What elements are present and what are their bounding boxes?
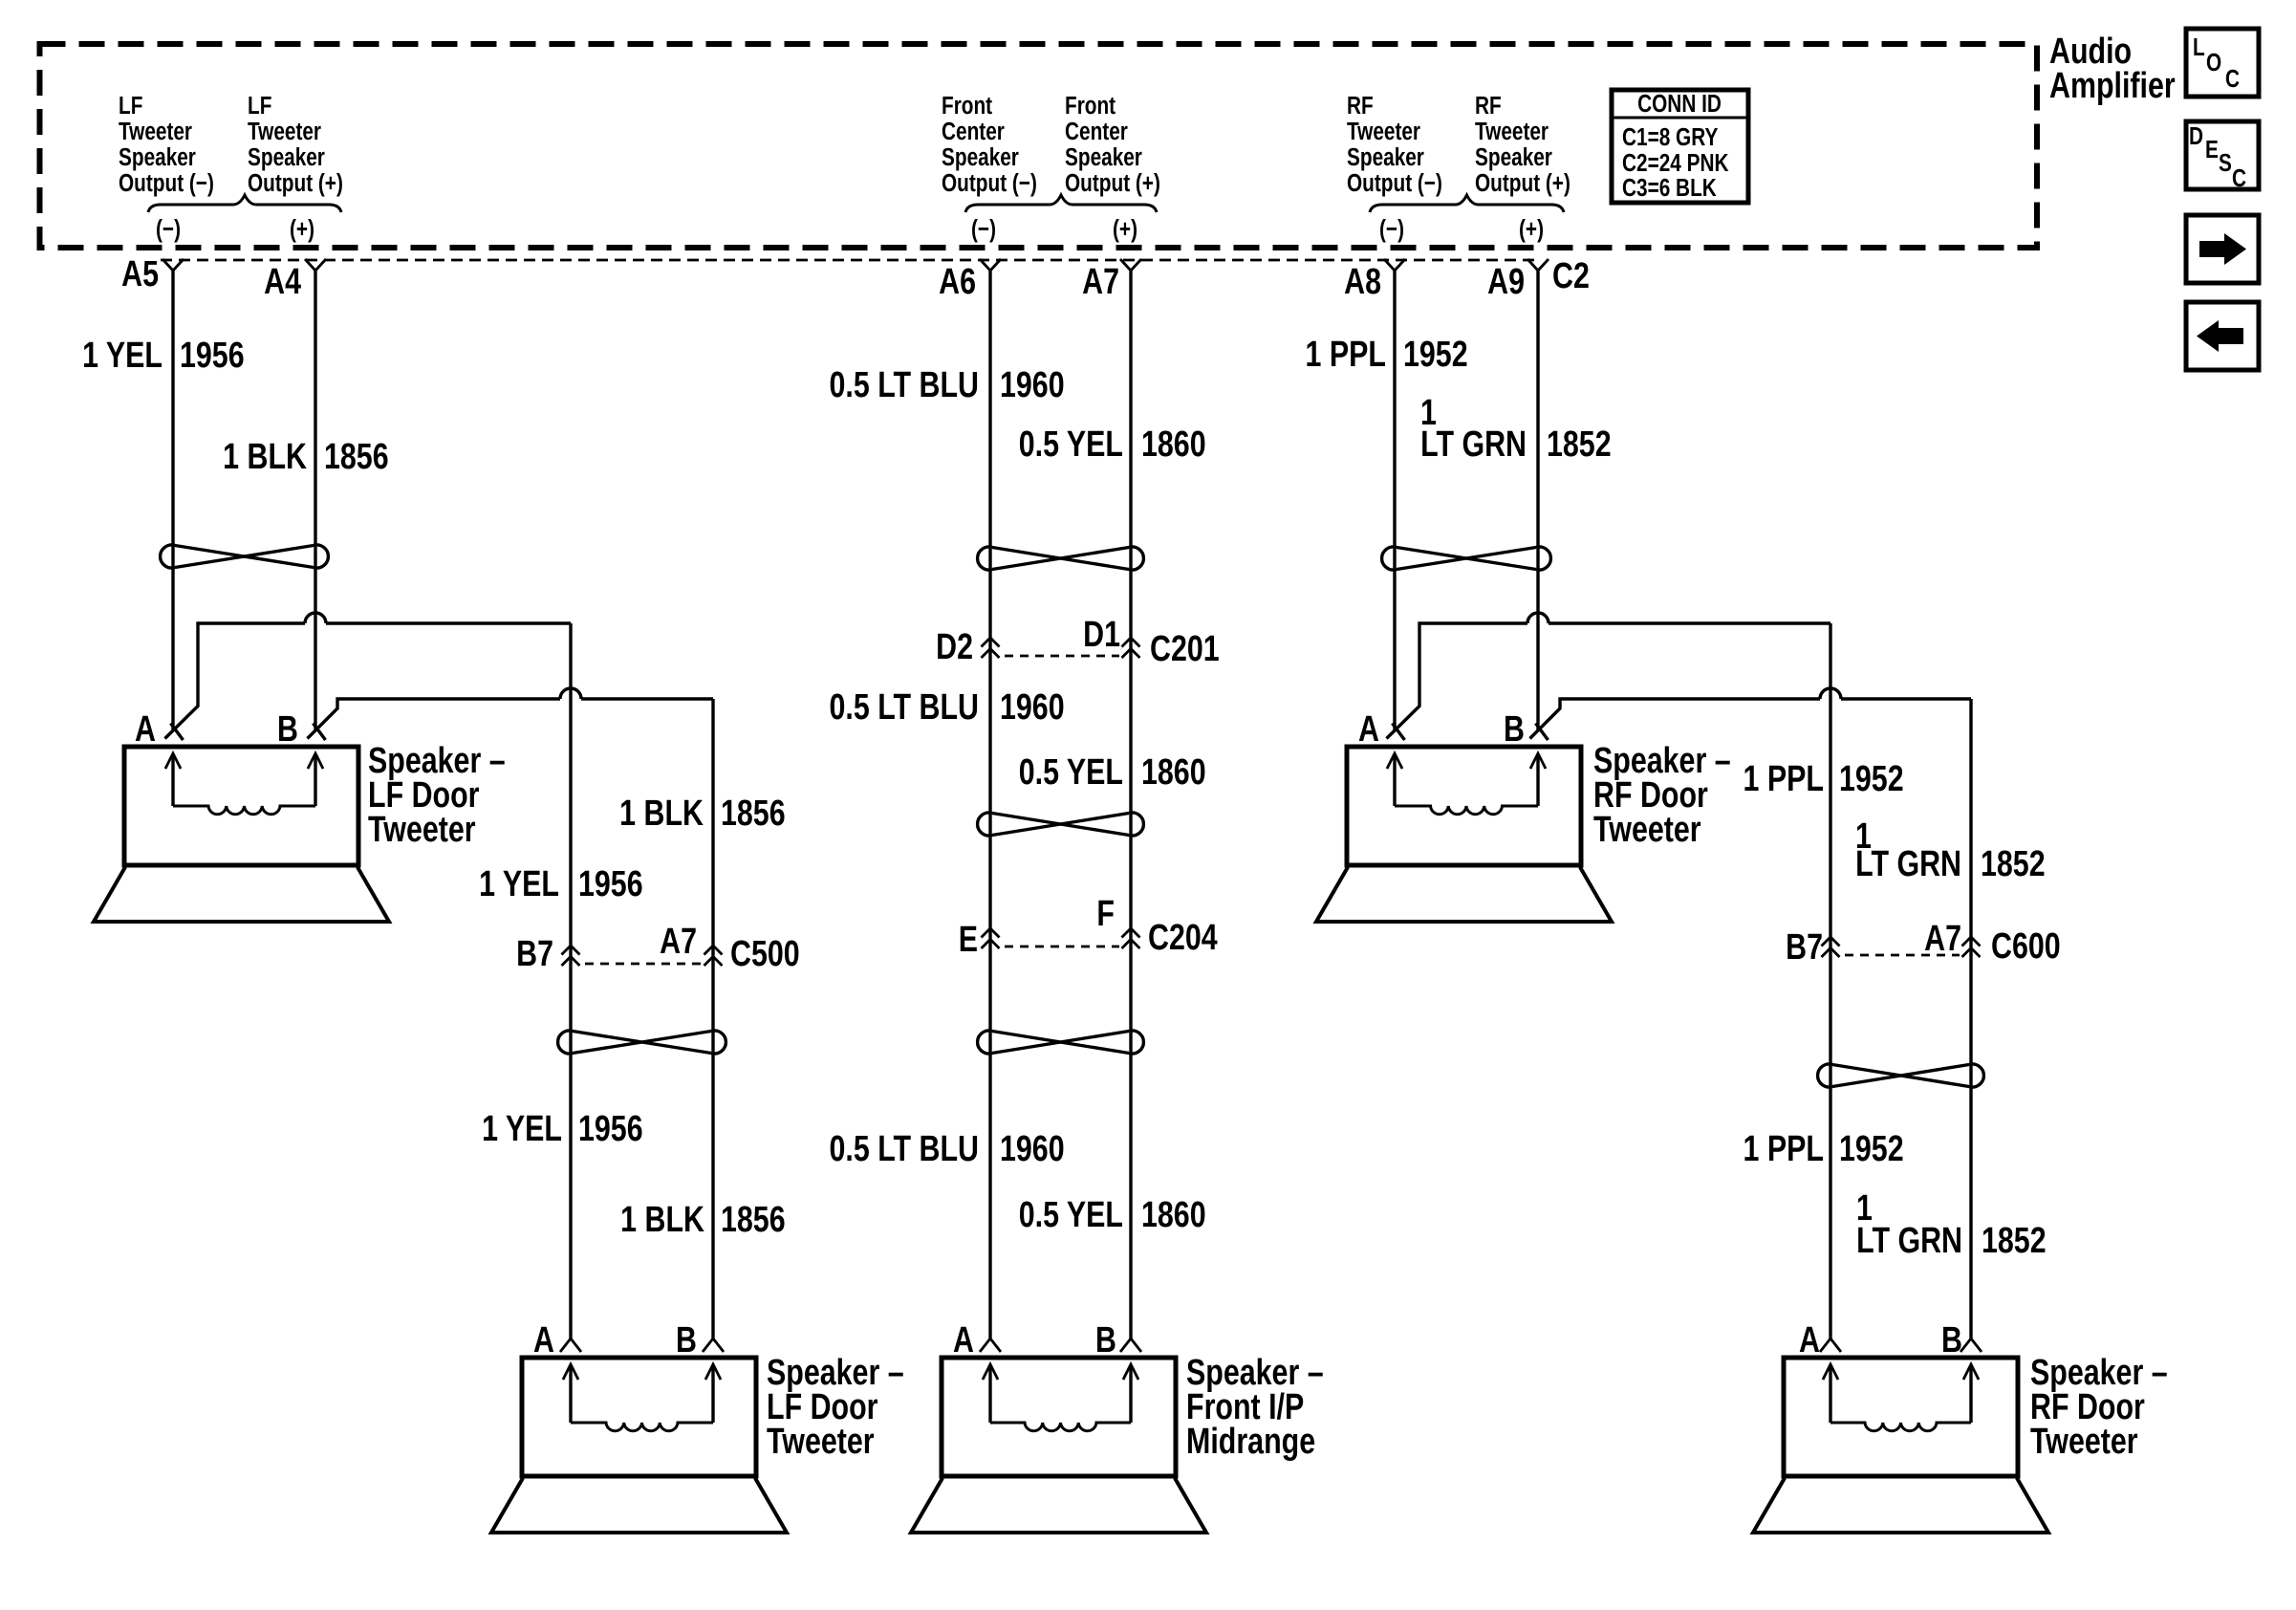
- svg-text:B: B: [1941, 1320, 1962, 1360]
- svg-text:Speaker: Speaker: [1347, 143, 1424, 171]
- svg-text:1960: 1960: [1000, 687, 1065, 728]
- svg-text:0.5 YEL: 0.5 YEL: [1019, 1195, 1123, 1235]
- svg-text:Tweeter: Tweeter: [1475, 118, 1549, 145]
- svg-text:B7: B7: [516, 934, 553, 974]
- svg-text:1856: 1856: [721, 794, 786, 834]
- svg-text:Front: Front: [942, 92, 992, 120]
- svg-text:Center: Center: [1065, 118, 1128, 145]
- svg-text:1 YEL: 1 YEL: [82, 336, 162, 376]
- svg-text:Speaker: Speaker: [248, 143, 325, 171]
- svg-text:(−): (−): [971, 215, 996, 243]
- svg-text:A7: A7: [1082, 262, 1119, 302]
- svg-text:L: L: [2193, 33, 2205, 61]
- svg-text:RF: RF: [1347, 92, 1374, 120]
- svg-text:B: B: [676, 1320, 697, 1360]
- svg-text:0.5 YEL: 0.5 YEL: [1019, 752, 1123, 793]
- svg-text:C: C: [2232, 164, 2246, 192]
- svg-text:1852: 1852: [1981, 844, 2046, 884]
- svg-text:E: E: [2205, 136, 2219, 163]
- svg-text:Speaker: Speaker: [1475, 143, 1552, 171]
- svg-text:0.5 LT BLU: 0.5 LT BLU: [830, 1129, 979, 1169]
- svg-text:Amplifier: Amplifier: [2049, 66, 2176, 106]
- svg-text:Tweeter: Tweeter: [767, 1422, 875, 1462]
- svg-text:A: A: [1799, 1320, 1820, 1360]
- svg-text:A: A: [1358, 709, 1379, 750]
- svg-text:Tweeter: Tweeter: [1593, 810, 1701, 850]
- svg-text:A5: A5: [121, 254, 159, 294]
- svg-text:1956: 1956: [578, 864, 643, 904]
- svg-text:A9: A9: [1487, 262, 1525, 302]
- svg-text:C2: C2: [1552, 256, 1590, 296]
- svg-text:A8: A8: [1344, 262, 1381, 302]
- svg-text:1956: 1956: [578, 1109, 643, 1149]
- svg-text:Tweeter: Tweeter: [1347, 118, 1420, 145]
- svg-text:C: C: [2225, 65, 2240, 93]
- svg-text:A: A: [953, 1320, 974, 1360]
- svg-text:Tweeter: Tweeter: [2030, 1422, 2138, 1462]
- svg-text:1852: 1852: [1982, 1221, 2047, 1261]
- svg-text:1: 1: [1855, 816, 1872, 857]
- svg-text:1: 1: [1856, 1188, 1873, 1229]
- svg-text:0.5 LT BLU: 0.5 LT BLU: [830, 687, 979, 728]
- svg-text:D: D: [2189, 122, 2203, 150]
- svg-text:1860: 1860: [1141, 752, 1206, 793]
- svg-text:F: F: [1096, 894, 1115, 934]
- svg-text:LF: LF: [248, 92, 271, 120]
- svg-text:C500: C500: [730, 934, 800, 974]
- svg-text:A: A: [533, 1320, 554, 1360]
- svg-text:Output (+): Output (+): [1475, 169, 1570, 197]
- svg-text:1952: 1952: [1403, 335, 1468, 375]
- svg-text:A7: A7: [660, 922, 697, 962]
- svg-text:1852: 1852: [1547, 424, 1612, 465]
- svg-text:1 PPL: 1 PPL: [1744, 1129, 1824, 1169]
- svg-text:D2: D2: [936, 627, 973, 667]
- svg-text:LF: LF: [119, 92, 142, 120]
- svg-text:0.5 LT BLU: 0.5 LT BLU: [830, 365, 979, 405]
- svg-text:E: E: [959, 920, 978, 960]
- svg-text:Midrange: Midrange: [1186, 1422, 1315, 1462]
- svg-text:1860: 1860: [1141, 424, 1206, 465]
- svg-text:CONN ID: CONN ID: [1637, 90, 1722, 118]
- svg-text:1856: 1856: [721, 1200, 786, 1240]
- svg-text:A: A: [135, 709, 156, 750]
- svg-text:1860: 1860: [1141, 1195, 1206, 1235]
- svg-text:B: B: [1095, 1320, 1116, 1360]
- svg-text:(−): (−): [1379, 215, 1404, 243]
- svg-text:(+): (+): [290, 215, 314, 243]
- svg-text:C201: C201: [1150, 629, 1220, 669]
- svg-text:1956: 1956: [180, 336, 245, 376]
- svg-text:A6: A6: [939, 262, 976, 302]
- svg-text:Tweeter: Tweeter: [248, 118, 321, 145]
- svg-text:Output (−): Output (−): [942, 169, 1037, 197]
- svg-text:C2=24 PNK: C2=24 PNK: [1622, 149, 1729, 177]
- svg-text:B7: B7: [1786, 927, 1823, 968]
- svg-text:A7: A7: [1924, 919, 1961, 959]
- svg-text:Tweeter: Tweeter: [119, 118, 192, 145]
- svg-text:1 YEL: 1 YEL: [479, 864, 559, 904]
- svg-text:C204: C204: [1148, 918, 1218, 958]
- svg-text:B: B: [277, 709, 298, 750]
- svg-text:Speaker: Speaker: [119, 143, 196, 171]
- svg-text:1: 1: [1420, 393, 1437, 433]
- svg-text:Tweeter: Tweeter: [368, 810, 476, 850]
- svg-text:C1=8 GRY: C1=8 GRY: [1622, 123, 1719, 151]
- svg-text:1 BLK: 1 BLK: [620, 1200, 704, 1240]
- svg-text:1 PPL: 1 PPL: [1744, 759, 1824, 799]
- svg-text:C3=6 BLK: C3=6 BLK: [1622, 174, 1717, 202]
- svg-text:1952: 1952: [1839, 759, 1904, 799]
- svg-text:(+): (+): [1519, 215, 1544, 243]
- svg-text:1952: 1952: [1839, 1129, 1904, 1169]
- svg-text:S: S: [2219, 149, 2232, 177]
- svg-text:Output (−): Output (−): [119, 169, 214, 197]
- svg-text:Front: Front: [1065, 92, 1116, 120]
- svg-text:B: B: [1504, 709, 1525, 750]
- svg-text:RF: RF: [1475, 92, 1502, 120]
- svg-text:(−): (−): [156, 215, 181, 243]
- svg-text:Output (+): Output (+): [248, 169, 343, 197]
- svg-text:(+): (+): [1113, 215, 1137, 243]
- svg-text:1856: 1856: [324, 437, 389, 477]
- svg-text:0.5 YEL: 0.5 YEL: [1019, 424, 1123, 465]
- svg-text:1960: 1960: [1000, 1129, 1065, 1169]
- svg-text:1 PPL: 1 PPL: [1306, 335, 1386, 375]
- svg-text:A4: A4: [264, 262, 301, 302]
- svg-text:C600: C600: [1991, 926, 2061, 967]
- svg-text:1 BLK: 1 BLK: [619, 794, 704, 834]
- svg-text:1 YEL: 1 YEL: [482, 1109, 562, 1149]
- svg-text:Speaker: Speaker: [1065, 143, 1142, 171]
- svg-text:Output (+): Output (+): [1065, 169, 1160, 197]
- svg-text:1 BLK: 1 BLK: [223, 437, 307, 477]
- svg-text:1960: 1960: [1000, 365, 1065, 405]
- svg-text:O: O: [2206, 49, 2221, 76]
- svg-text:Speaker: Speaker: [942, 143, 1019, 171]
- svg-text:Output (−): Output (−): [1347, 169, 1442, 197]
- svg-text:Center: Center: [942, 118, 1005, 145]
- svg-text:D1: D1: [1083, 615, 1120, 655]
